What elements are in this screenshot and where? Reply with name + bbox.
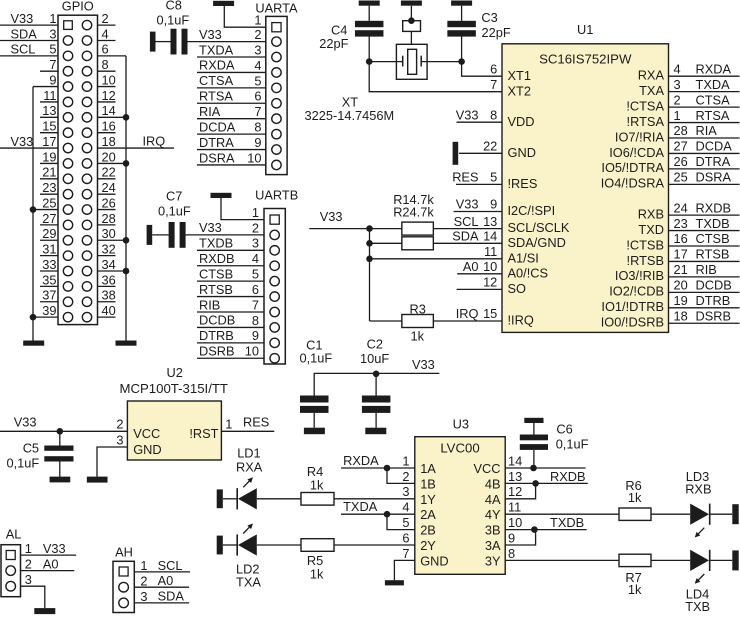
svg-text:13: 13	[508, 469, 522, 484]
svg-text:V33: V33	[11, 11, 34, 26]
U1 pin 16 (!CTSB)	[669, 245, 740, 247]
svg-text:24: 24	[102, 180, 116, 195]
ground GPIO right rail	[116, 341, 137, 346]
UARTB pin 6 circle	[270, 292, 279, 301]
svg-text:7: 7	[402, 546, 409, 561]
svg-text:5: 5	[49, 42, 56, 57]
svg-text:2: 2	[674, 92, 681, 107]
wire C3 leads	[461, 6, 463, 21]
ground C5	[50, 477, 71, 483]
wire LD2 cathode lead	[223, 544, 237, 546]
GPIO pin 18 circle	[82, 143, 91, 152]
svg-text:C8: C8	[166, 0, 182, 12]
svg-text:IO4/!DSRA: IO4/!DSRA	[601, 176, 665, 191]
wire UARTB pin 5	[197, 280, 264, 282]
junction dot pin34 rail	[123, 268, 130, 275]
wire R6 to LD3	[651, 513, 690, 515]
svg-text:7: 7	[252, 297, 259, 312]
svg-text:3: 3	[252, 236, 259, 251]
GPIO pin 27 circle	[63, 220, 72, 229]
GPIO pin 32 circle	[82, 251, 91, 260]
svg-text:2: 2	[102, 11, 109, 26]
svg-text:LD1: LD1	[237, 445, 260, 460]
svg-text:2: 2	[252, 220, 259, 235]
LD1 emission arrow	[243, 480, 251, 488]
junction dot C6 VCC	[530, 465, 537, 472]
svg-text:SC16IS752IPW: SC16IS752IPW	[539, 52, 632, 67]
svg-text:14: 14	[508, 453, 522, 468]
svg-text:SCL: SCL	[158, 558, 183, 573]
ground UARTB pin1	[211, 193, 232, 198]
svg-text:1B: 1B	[420, 476, 436, 491]
GPIO pin 7 circle	[63, 67, 72, 76]
U2 pin 1 !RST	[221, 430, 274, 432]
svg-text:A0: A0	[463, 259, 479, 274]
svg-text:U3: U3	[453, 417, 469, 432]
svg-text:35: 35	[42, 272, 56, 287]
svg-text:3: 3	[254, 42, 261, 57]
wire UARTB pin 2	[186, 234, 264, 236]
ground U2 pin3	[87, 477, 108, 483]
svg-text:22: 22	[102, 165, 116, 180]
svg-text:RXA: RXA	[638, 68, 665, 83]
svg-text:14: 14	[102, 103, 116, 118]
svg-text:RTSB: RTSB	[696, 247, 730, 262]
junction dot C5	[57, 428, 64, 435]
wire GPIO pin 37	[40, 301, 58, 303]
svg-text:19: 19	[42, 149, 56, 164]
svg-text:UARTB: UARTB	[255, 188, 298, 203]
svg-text:TXDA: TXDA	[696, 77, 731, 92]
wire GPIO pin 15	[40, 132, 58, 134]
svg-text:9: 9	[49, 72, 56, 87]
LD3 emission arrow	[697, 528, 704, 535]
svg-text:C2: C2	[367, 336, 383, 351]
wire UARTB pin1 to ground	[221, 198, 264, 220]
GPIO pin 30 circle	[82, 236, 91, 245]
svg-text:20: 20	[674, 278, 688, 293]
wire GPIO pin 24	[98, 193, 116, 195]
wire UARTA pin 3	[197, 56, 266, 58]
wire rail to U1 pin11	[370, 258, 503, 260]
wire UARTA pin 2	[188, 41, 266, 43]
wire UARTB pin 6	[197, 296, 264, 298]
svg-text:3: 3	[49, 26, 56, 41]
UARTA pin 2 circle	[272, 37, 281, 46]
wire AH pin2	[134, 586, 189, 588]
svg-text:1k: 1k	[628, 490, 642, 505]
U1 pin 23 (TXD)	[669, 230, 740, 232]
svg-text:7: 7	[490, 77, 497, 92]
U1 pin 26 (IO5/!DTRA)	[669, 168, 740, 170]
wire GPIO pin 16	[98, 132, 116, 134]
wire GPIO pin 22	[98, 178, 116, 180]
wire GPIO pin 12	[98, 101, 116, 103]
GPIO pin 3 circle	[63, 36, 72, 45]
svg-text:GPIO: GPIO	[62, 0, 94, 14]
svg-text:IRQ: IRQ	[456, 306, 479, 321]
wire R5 to U3 pin6	[334, 544, 415, 546]
svg-text:RES: RES	[243, 414, 269, 429]
LD4 emission arrow	[697, 574, 704, 581]
GPIO pin 40 circle	[82, 312, 91, 321]
wire GPIO pin 19	[40, 162, 58, 164]
svg-text:DCDA: DCDA	[696, 139, 733, 154]
wire AH pin3	[134, 602, 189, 604]
wire U3 pin11 to R6	[505, 513, 619, 515]
svg-text:RIB: RIB	[199, 297, 220, 312]
svg-text:20: 20	[102, 149, 116, 164]
wire AL pin1	[21, 554, 77, 556]
wire V33 rail	[309, 228, 369, 230]
svg-text:8: 8	[508, 546, 515, 561]
svg-text:V33: V33	[412, 357, 435, 372]
svg-text:9: 9	[254, 135, 261, 150]
svg-text:V33: V33	[43, 541, 66, 556]
junction dot TXDB	[531, 526, 538, 533]
svg-text:DCDA: DCDA	[199, 119, 236, 134]
wire UARTB pin 4	[197, 265, 264, 267]
svg-text:TXDA: TXDA	[343, 499, 378, 514]
wire AL pin2	[21, 570, 75, 572]
svg-text:RXB: RXB	[638, 206, 664, 221]
svg-text:21: 21	[42, 165, 56, 180]
svg-text:31: 31	[42, 242, 56, 257]
svg-text:IO7/!RIA: IO7/!RIA	[615, 129, 665, 144]
svg-text:VCC: VCC	[133, 426, 160, 441]
svg-text:IO6/!CDA: IO6/!CDA	[609, 145, 664, 160]
svg-text:RXA: RXA	[236, 460, 263, 475]
svg-text:DCDB: DCDB	[696, 278, 732, 293]
svg-text:1k: 1k	[628, 582, 642, 597]
wire UARTA pin1 to ground	[224, 6, 265, 27]
wire UARTA pin 5	[197, 87, 266, 89]
svg-text:SDA/GND: SDA/GND	[508, 235, 566, 250]
svg-text:3225-14.7456M: 3225-14.7456M	[305, 108, 395, 123]
svg-text:1: 1	[252, 205, 259, 220]
svg-text:V33: V33	[199, 27, 222, 42]
wire UARTA pin 4	[197, 71, 266, 73]
svg-text:6: 6	[402, 530, 409, 545]
LD3 diode symbol	[690, 504, 709, 525]
svg-text:12: 12	[102, 88, 116, 103]
junction dot TXDA	[384, 511, 391, 518]
U1 pin 28 (IO7/!RIA)	[669, 137, 740, 139]
wire C6 lead	[520, 435, 548, 441]
wire V33 rail C1 C2	[314, 372, 440, 374]
LD4 diode symbol	[690, 550, 709, 571]
wire AH pin1	[134, 571, 190, 573]
ground UARTA pin1	[213, 1, 234, 6]
wire GPIO pin 6	[98, 55, 127, 57]
svg-text:DTRA: DTRA	[199, 135, 234, 150]
AH pin 2 circle	[119, 582, 129, 592]
svg-text:4: 4	[252, 251, 259, 266]
svg-text:34: 34	[102, 257, 116, 272]
GPIO pin 8 circle	[82, 67, 91, 76]
junction dot RXDB	[532, 480, 539, 487]
svg-text:0,1uF: 0,1uF	[300, 351, 333, 366]
svg-text:SCL: SCL	[454, 214, 479, 229]
svg-text:26: 26	[102, 195, 116, 210]
svg-text:2B: 2B	[420, 523, 436, 538]
wire U3 pin12 tie to pin13	[505, 483, 535, 498]
svg-text:2: 2	[116, 416, 123, 431]
ground LD4	[732, 550, 738, 570]
svg-text:3Y: 3Y	[485, 553, 501, 568]
svg-text:13: 13	[42, 103, 56, 118]
svg-text:SDA: SDA	[11, 26, 38, 41]
wire GPIO pin 40	[98, 316, 116, 318]
svg-text:10: 10	[247, 150, 261, 165]
svg-text:28: 28	[674, 123, 688, 138]
svg-text:5: 5	[254, 73, 261, 88]
svg-text:TXB: TXB	[685, 599, 710, 614]
svg-text:38: 38	[102, 288, 116, 303]
wire GPIO pin 17	[0, 147, 58, 149]
AL pin 1 square	[6, 551, 15, 560]
svg-text:GND: GND	[133, 442, 161, 457]
wire U3 pin14 VCC	[505, 467, 585, 469]
ground U1 pin22	[453, 142, 459, 165]
svg-text:A0: A0	[43, 556, 59, 571]
U1 pin 8 (VDD)	[457, 121, 503, 123]
wire R7 to LD4	[651, 559, 690, 561]
svg-text:26: 26	[674, 154, 688, 169]
UARTB pin 4 circle	[270, 261, 279, 270]
wire GPIO pin 36	[98, 285, 116, 287]
svg-text:RXDA: RXDA	[199, 58, 235, 73]
svg-text:SDA: SDA	[158, 589, 185, 604]
AH pin 3 circle	[119, 598, 129, 608]
wire GPIO pin 38	[98, 301, 116, 303]
wire UARTB pin 3	[197, 249, 264, 251]
junction dot XT right	[458, 58, 465, 65]
junction dot pin30 rail	[123, 237, 130, 244]
UARTA pin 8 circle	[272, 129, 281, 138]
svg-text:I2C/!SPI: I2C/!SPI	[508, 203, 556, 218]
svg-text:TXDB: TXDB	[199, 236, 233, 251]
svg-text:5: 5	[252, 267, 259, 282]
svg-text:22: 22	[483, 139, 497, 154]
wire GPIO pin 9	[33, 86, 58, 88]
svg-text:!RES: !RES	[508, 176, 538, 191]
junction dot rail A1	[366, 255, 373, 262]
svg-text:19: 19	[674, 293, 688, 308]
U1 pin 2 (!CTSA)	[669, 106, 740, 108]
svg-text:VCC: VCC	[473, 461, 500, 476]
junction dot pin39 rail	[30, 314, 37, 321]
svg-text:1A: 1A	[420, 461, 436, 476]
svg-text:C3: C3	[481, 10, 497, 25]
svg-text:3: 3	[25, 572, 32, 587]
ground C1	[304, 428, 325, 435]
ground LD3	[732, 504, 738, 524]
svg-text:2Y: 2Y	[420, 538, 436, 553]
svg-text:AH: AH	[115, 544, 133, 559]
ground C2	[365, 428, 386, 435]
svg-text:DTRB: DTRB	[696, 293, 731, 308]
svg-text:9: 9	[508, 530, 515, 545]
wire GPIO pin 1	[0, 24, 58, 26]
svg-text:RIB: RIB	[696, 262, 717, 277]
junction dot crystal case	[408, 17, 415, 24]
svg-text:4B: 4B	[485, 476, 501, 491]
wire UARTB pin 9	[197, 342, 264, 344]
svg-text:4: 4	[254, 58, 261, 73]
UARTA pin 3 circle	[272, 52, 281, 61]
svg-text:33: 33	[42, 257, 56, 272]
svg-text:V33: V33	[199, 220, 222, 235]
UARTB pin 7 circle	[270, 307, 279, 316]
svg-text:29: 29	[42, 226, 56, 241]
U1 pin 17 (!RTSB)	[669, 260, 740, 262]
svg-text:RIA: RIA	[199, 104, 221, 119]
svg-text:TXA: TXA	[639, 83, 664, 98]
GPIO pin 10 circle	[82, 82, 91, 91]
U1 pin 18 (IO0/!DSRB)	[669, 322, 740, 324]
wire UARTA pin 6	[197, 102, 266, 104]
wire U3 pin9 tie to pin10	[505, 530, 535, 545]
svg-text:IRQ: IRQ	[143, 133, 166, 148]
wire C7 ground to plate	[152, 234, 168, 236]
svg-text:RTSA: RTSA	[696, 108, 730, 123]
svg-text:V33: V33	[320, 209, 343, 224]
GPIO pin 2 circle	[82, 20, 91, 29]
wire GPIO pin 32	[98, 255, 116, 257]
wire LD3 cathode lead	[710, 513, 733, 515]
GPIO pin 14 circle	[82, 113, 91, 122]
wire GPIO pin 27	[40, 224, 58, 226]
svg-text:21: 21	[674, 262, 688, 277]
svg-text:RXDB: RXDB	[696, 200, 732, 215]
ground C6	[524, 418, 543, 423]
svg-text:1k: 1k	[310, 566, 324, 581]
GPIO pin 17 circle	[63, 143, 72, 152]
U1 pin 27 (IO6/!CDA)	[669, 152, 740, 154]
GPIO pin 15 circle	[63, 128, 72, 137]
svg-text:DSRB: DSRB	[199, 344, 235, 359]
wire UARTA pin 10	[197, 164, 266, 166]
svg-text:DCDB: DCDB	[199, 313, 235, 328]
svg-text:A0/!CS: A0/!CS	[508, 265, 549, 280]
svg-text:!RTSA: !RTSA	[627, 114, 665, 129]
U1 pin 4 (RXA)	[669, 75, 740, 77]
GPIO pin 31 circle	[63, 251, 72, 260]
svg-text:3B: 3B	[485, 523, 501, 538]
svg-text:25: 25	[674, 170, 688, 185]
wire GPIO left ground rail	[32, 87, 34, 341]
svg-text:11: 11	[508, 500, 521, 515]
U1 pin 12 (SO)	[457, 288, 502, 290]
svg-text:CTSB: CTSB	[199, 266, 233, 281]
U1 pin 21 (IO3/!RIB)	[669, 276, 740, 278]
UARTB pin 1 square	[270, 215, 279, 224]
junction dot XT left	[366, 58, 373, 65]
GPIO pin 16 circle	[82, 128, 91, 137]
svg-text:R24.7k: R24.7k	[393, 205, 434, 220]
UARTA pin 9 circle	[272, 145, 281, 154]
ground LD2	[217, 536, 223, 555]
junction dot rail SDA	[366, 240, 373, 247]
crystal case ground pad	[403, 21, 421, 32]
svg-text:23: 23	[42, 180, 56, 195]
svg-text:6: 6	[254, 89, 261, 104]
op IC U2 MCP100T-315I/TT body	[127, 401, 221, 460]
wire U3 pin4 to pin5 tie	[387, 514, 415, 529]
svg-text:0,1uF: 0,1uF	[7, 455, 40, 470]
U1 pin 5 (!RES)	[456, 183, 502, 185]
wire GPIO pin 18	[98, 147, 175, 149]
wire GPIO pin 25	[33, 209, 58, 211]
ground C8	[150, 32, 156, 52]
wire UARTB pin 7	[197, 311, 264, 313]
svg-text:5: 5	[490, 170, 497, 185]
svg-text:DTRA: DTRA	[696, 154, 731, 169]
UARTA pin 5 circle	[272, 83, 281, 92]
svg-text:18: 18	[102, 134, 116, 149]
wire GPIO pin 20	[98, 162, 127, 164]
svg-text:40: 40	[102, 303, 116, 318]
wire LD2 to R5	[257, 544, 302, 546]
wire TXDA to U3 pin4	[341, 513, 415, 515]
svg-text:XT2: XT2	[508, 83, 531, 98]
svg-text:16: 16	[674, 231, 688, 246]
svg-text:RXDA: RXDA	[343, 453, 379, 468]
svg-text:RTSA: RTSA	[199, 89, 233, 104]
svg-text:VDD: VDD	[508, 114, 535, 129]
wire XT2 to U1 pin7	[369, 62, 502, 92]
wire GPIO pin 13	[40, 116, 58, 118]
svg-text:17: 17	[674, 247, 688, 262]
svg-text:RXDB: RXDB	[550, 469, 586, 484]
AL pin 3 circle	[6, 581, 16, 591]
svg-text:SCL: SCL	[11, 42, 36, 57]
wire GPIO pin 4	[98, 39, 116, 41]
wire LD1 to R4	[257, 498, 302, 500]
svg-text:9: 9	[490, 197, 497, 212]
svg-text:SCL/SCLK: SCL/SCLK	[508, 220, 570, 235]
svg-text:C6: C6	[556, 422, 572, 437]
junction dot pin25 rail	[30, 206, 37, 213]
ground C3	[451, 1, 472, 6]
svg-text:RTSB: RTSB	[199, 282, 233, 297]
GPIO pin 37 circle	[63, 297, 72, 306]
svg-text:4: 4	[674, 61, 681, 76]
ground C4	[359, 1, 380, 6]
svg-text:!RTSB: !RTSB	[627, 253, 664, 268]
wire GPIO pin 29	[40, 239, 58, 241]
svg-text:4Y: 4Y	[485, 507, 501, 522]
ground U3 pin7	[385, 580, 404, 585]
wire UARTA pin 9	[197, 149, 266, 151]
ground GPIO left rail	[23, 341, 44, 346]
UARTA pin 10 circle	[272, 160, 281, 169]
svg-text:3: 3	[674, 77, 681, 92]
U1 pin 24 (RXB)	[669, 214, 740, 216]
svg-text:V33: V33	[456, 107, 479, 122]
svg-text:MCP100T-315I/TT: MCP100T-315I/TT	[120, 381, 228, 396]
svg-text:22pF: 22pF	[319, 36, 348, 51]
wire GPIO pin 26	[98, 209, 116, 211]
ground AL pin3	[34, 608, 55, 614]
wire GPIO pin 14	[98, 116, 127, 118]
svg-text:8: 8	[490, 107, 497, 122]
LD1 diode symbol	[236, 488, 238, 509]
wire U3 pin7 GND	[394, 560, 414, 580]
junction dot rail SCL	[366, 225, 373, 232]
wire RXDA to U3 pin1	[341, 467, 415, 469]
